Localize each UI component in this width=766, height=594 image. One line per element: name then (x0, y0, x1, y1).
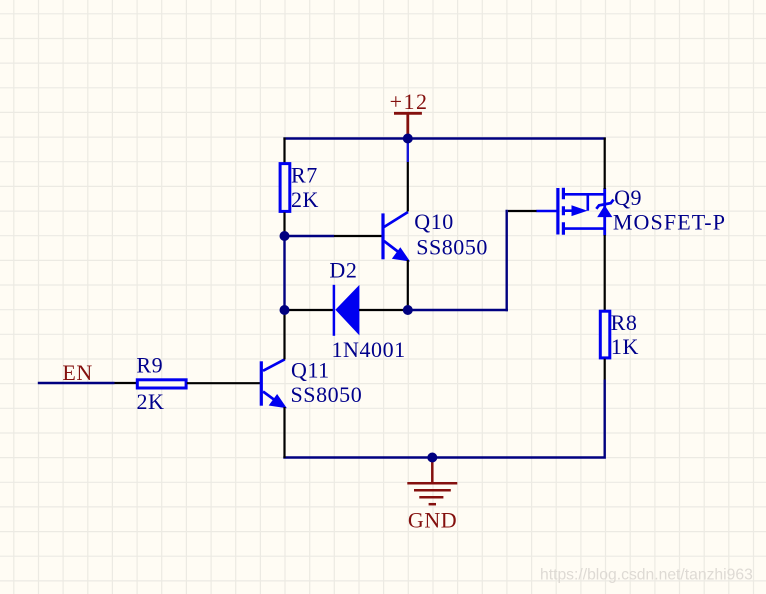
power symbol +12 (394, 113, 422, 139)
svg-text:EN: EN (62, 360, 92, 385)
svg-text:SS8050: SS8050 (291, 382, 363, 407)
svg-text:GND: GND (408, 508, 457, 533)
Q10 emitter arrow (393, 249, 408, 261)
wire: to Q10 base (black part) (334, 235, 382, 237)
wire: R9 to Q11 base (187, 382, 260, 384)
wire: EN input (navy) (38, 382, 115, 384)
svg-text:Q11: Q11 (291, 357, 330, 382)
wire: node to D2 cathode (285, 309, 335, 311)
wire: rail to Q10 collector (blue part) (407, 138, 409, 163)
MOSFET Q9 (537, 188, 605, 236)
source stub mid (563, 209, 572, 212)
svg-text:2K: 2K (291, 187, 319, 212)
wire: left vertical node to node (navy) (283, 236, 285, 310)
wire: gate net horizontal (navy) (408, 309, 508, 311)
wire: R7 bottom to node (283, 212, 285, 236)
svg-text:https://blog.csdn.net/tanzhi96: https://blog.csdn.net/tanzhi963 (540, 567, 753, 584)
gate bar (556, 188, 559, 235)
diode D2 (334, 285, 360, 336)
node: Q10 emitter / D2 / gate net (403, 305, 413, 315)
wire: rail to Q10 collector (black part) (407, 162, 409, 212)
wire: node to Q10 base (navy part) (285, 235, 335, 237)
transistor Q11 (261, 359, 285, 405)
wire: Q11 collector up to node (283, 310, 285, 360)
Q11 emitter arrow (270, 395, 285, 407)
wire: rail down to Q9 drain (604, 138, 606, 190)
right vertical (drain-source line) (603, 188, 606, 236)
bulk connect vertical (586, 194, 589, 210)
svg-text:+12: +12 (390, 89, 429, 114)
wire: Q11 emitter down to bottom rail (283, 407, 285, 458)
svg-text:Q10: Q10 (414, 209, 454, 234)
svg-text:R7: R7 (291, 163, 318, 188)
node: GND junction (427, 453, 437, 463)
svg-text:MOSFET-P: MOSFET-P (613, 210, 726, 235)
wire: left vertical, rail to R7 (283, 138, 285, 164)
svg-text:D2: D2 (329, 258, 357, 283)
resistor R7 (280, 164, 290, 212)
transistor Q10 (383, 212, 408, 259)
svg-text:R9: R9 (136, 352, 163, 377)
svg-text:2K: 2K (137, 389, 165, 414)
svg-text:1N4001: 1N4001 (332, 337, 406, 362)
wire: top horizontal net (+12 rail) (283, 137, 605, 139)
resistor R9 (137, 380, 186, 388)
Q9 source arrow (572, 205, 588, 216)
drain stub top (563, 193, 604, 196)
wire: R8 to bottom rail (navy) (283, 380, 604, 458)
source stub bottom (563, 227, 604, 230)
Q9 body diode cathode bar (596, 200, 613, 209)
wire: D2 anode to node (359, 309, 408, 311)
wire: EN to R9 (black) (115, 382, 137, 384)
svg-text:Q9: Q9 (614, 185, 642, 210)
resistor R8 (600, 311, 610, 358)
ground GND symbol (407, 458, 457, 504)
svg-text:1K: 1K (611, 334, 639, 359)
Q9 body diode triangle (597, 205, 612, 217)
wire: gate net vertical up (506, 210, 508, 311)
wire: gate net horizontal to gate (black) (508, 210, 537, 212)
svg-text:SS8050: SS8050 (416, 234, 488, 259)
wire: Q10 emitter down to node (407, 260, 409, 310)
gate pin (537, 210, 557, 213)
svg-text:R8: R8 (611, 310, 638, 335)
node: R7 / Q10 base (280, 231, 290, 241)
node: +12 / top rail junction (403, 134, 413, 144)
node: left / D2 cathode row (280, 305, 290, 315)
wire: Q9 source down to R8 (604, 235, 606, 311)
wire: R8 bottom (black part) (604, 359, 606, 380)
channel segments (562, 188, 565, 235)
